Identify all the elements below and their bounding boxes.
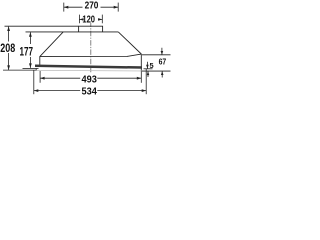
canopy bottom line — [40, 54, 142, 57]
dim 493 arrowheads — [40, 77, 45, 80]
left vertical edge — [39, 56, 41, 65]
dim 208 vertical line lower — [8, 53, 10, 70]
bottom frame band (thick) — [35, 65, 142, 69]
dim 177 vertical line upper — [29, 32, 31, 44]
svg-text:67: 67 — [159, 57, 167, 67]
dim 120 ticks — [78, 15, 80, 24]
208 bottom extension line — [3, 69, 37, 71]
duct collar rectangle — [79, 26, 103, 32]
dim 5 lower arrow — [147, 71, 149, 77]
hood top surface line with 177 extension — [26, 31, 119, 33]
svg-text:270: 270 — [85, 0, 99, 11]
dim 534 right extension tick — [145, 71, 147, 94]
dim 534 arrowheads — [34, 89, 39, 92]
dim 208 arrowheads — [7, 27, 10, 32]
right lip outer edge — [145, 69, 147, 71]
5/67 bottom extension line — [142, 70, 171, 72]
left slant side — [40, 32, 63, 57]
67 top extension line — [142, 54, 171, 56]
background — [0, 0, 171, 100]
svg-text:534: 534 — [82, 87, 98, 98]
svg-text:5: 5 — [149, 61, 153, 70]
dim 120 arrowheads — [79, 18, 83, 21]
dim 270 arrowheads — [64, 6, 69, 9]
dim 270 ticks — [63, 3, 65, 12]
5 top extension line — [144, 68, 153, 70]
dim 67 upper arrow — [161, 48, 163, 55]
dim 5 upper arrow — [146, 62, 148, 69]
dim 534 line — [34, 90, 80, 92]
177 bottom extension line — [23, 68, 39, 70]
svg-text:177: 177 — [20, 45, 34, 59]
dim 493 line — [40, 77, 80, 79]
dim 120 line — [79, 18, 102, 20]
dim 177 vertical line lower — [29, 57, 31, 68]
dim 67 lower arrow — [161, 71, 163, 77]
dim 493 right extension tick — [140, 71, 142, 83]
centerline (dash-dot) — [90, 22, 92, 73]
right vertical edge — [140, 54, 142, 71]
svg-text:208: 208 — [0, 41, 15, 55]
dim 208 vertical line upper — [8, 27, 10, 42]
faint lip bottom line across — [36, 69, 146, 72]
dim 534 left extension tick — [33, 70, 35, 94]
svg-text:120: 120 — [82, 14, 95, 25]
dim 177 arrowheads — [29, 32, 32, 37]
dim 270 line — [64, 6, 118, 8]
right slant side — [118, 32, 141, 54]
left lip outer edge — [35, 68, 37, 70]
collar top extension line (208 ref) — [5, 25, 79, 27]
dim 493 left extension tick — [39, 71, 41, 83]
svg-text:493: 493 — [82, 75, 98, 86]
